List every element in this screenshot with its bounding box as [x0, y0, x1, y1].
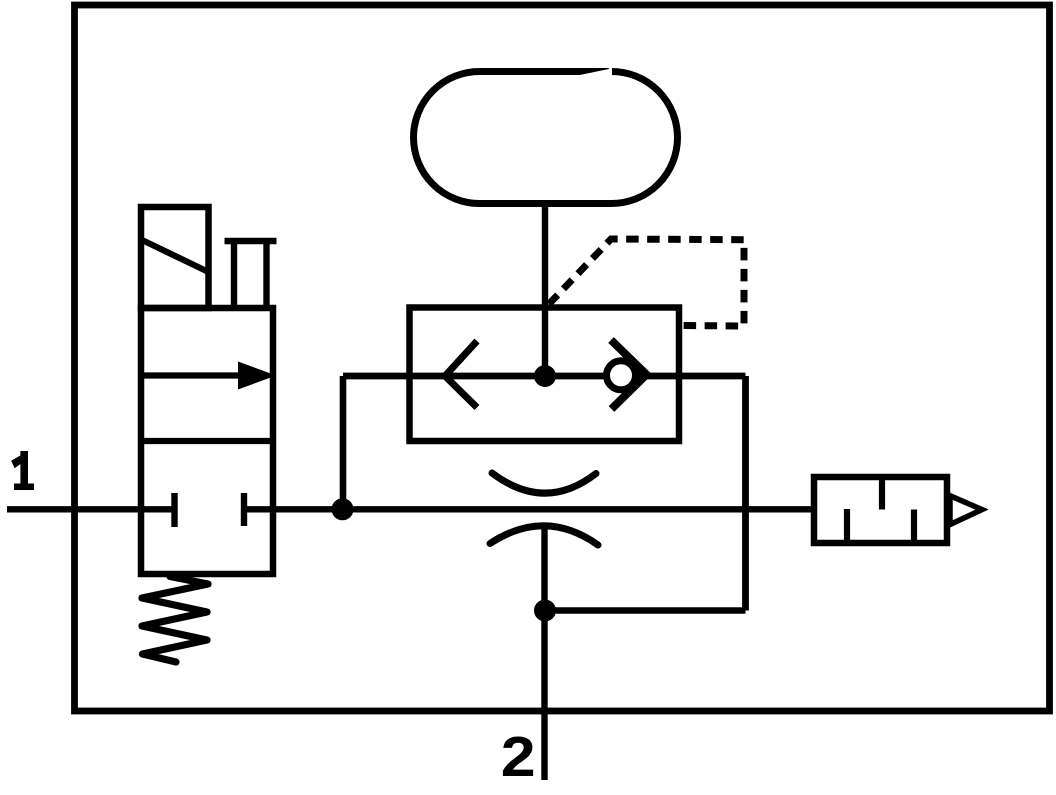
svg-text:2: 2	[501, 725, 536, 788]
